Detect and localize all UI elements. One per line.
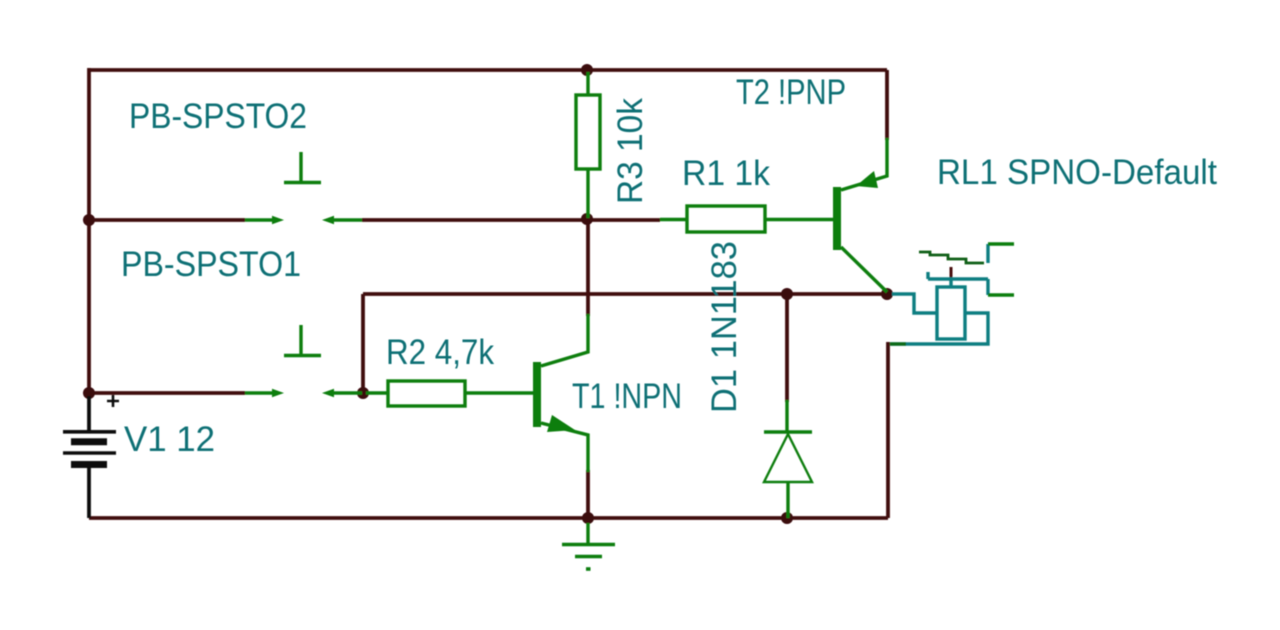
- wire bottom rail: [89, 516, 888, 520]
- node junction base rail / T2 collector / RL1 coil: [881, 288, 893, 300]
- svg-text:R3 10k: R3 10k: [611, 98, 650, 204]
- svg-text:PB-SPSTO1: PB-SPSTO1: [121, 245, 301, 284]
- node junction R3 bottom / collector rail: [581, 213, 593, 225]
- battery V1: [63, 395, 119, 518]
- svg-text:T2 !PNP: T2 !PNP: [736, 73, 846, 112]
- svg-text:D1 1N1183: D1 1N1183: [705, 241, 744, 413]
- svg-text:R2 4,7k: R2 4,7k: [386, 333, 494, 372]
- wire base rail y=294: [363, 292, 887, 296]
- resistor R3: [576, 72, 600, 218]
- transistor T1 (NPN): [533, 314, 588, 472]
- svg-text:R1 1k: R1 1k: [682, 154, 770, 193]
- ground: [562, 523, 615, 569]
- wire T1 collector vertical: [586, 220, 590, 316]
- node junction PB-SPSTO1 / R2 / vertical: [357, 387, 369, 399]
- wire left rail (V1 positive column): [87, 68, 91, 393]
- relay RL1 coil: [890, 278, 988, 344]
- resistor R2: [366, 381, 533, 406]
- wire T1 emitter vertical lower: [586, 470, 590, 518]
- wire PB-SPSTO2 rail right segment to R1: [362, 218, 660, 222]
- node junction V1 positive: [83, 387, 95, 399]
- node junction T1 emitter / ground / bottom rail: [582, 512, 594, 524]
- node junction base rail / D1 anode-top: [781, 288, 793, 300]
- pushbutton PB-SPSTO1: [245, 325, 362, 397]
- node junction left rail / PB-SPSTO2 rail: [83, 214, 95, 226]
- svg-text:RL1 SPNO-Default: RL1 SPNO-Default: [937, 153, 1217, 192]
- wire top rail from V1 column to T2 emitter column: [89, 68, 887, 72]
- wire T2 emitter vertical: [885, 70, 889, 140]
- svg-text:V1 12: V1 12: [124, 420, 215, 459]
- diode D1: [764, 400, 812, 518]
- node junction top of R3: [581, 64, 593, 76]
- svg-text:PB-SPSTO2: PB-SPSTO2: [129, 97, 307, 136]
- node junction D1 bottom / bottom rail: [781, 512, 793, 524]
- wire vertical from base rail down to PB-SPSTO1 rail: [361, 294, 365, 393]
- wire PB-SPSTO2 rail left segment: [89, 218, 245, 222]
- relay RL1 coil pin (bottom-left green segment): [890, 342, 906, 345]
- wire D1 top vertical: [785, 294, 789, 402]
- wire RL1 right vertical down to bottom rail: [886, 342, 890, 518]
- relay RL1 coil top pivot tick: [950, 267, 953, 278]
- wire PB-SPSTO1 rail left segment: [89, 391, 245, 395]
- pushbutton PB-SPSTO2: [245, 152, 362, 224]
- transistor T2 (PNP): [833, 138, 887, 292]
- svg-text:T1 !NPN: T1 !NPN: [572, 377, 682, 416]
- resistor R1: [660, 206, 833, 232]
- relay RL1 contact: [919, 244, 1014, 295]
